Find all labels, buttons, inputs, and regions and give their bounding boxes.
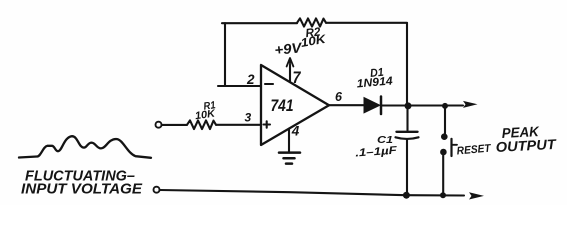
svg-text:741: 741 [271,97,294,115]
svg-text:2: 2 [246,72,255,87]
svg-text:.1–1µF: .1–1µF [355,145,398,160]
svg-text:1N914: 1N914 [356,75,394,90]
svg-text:10K: 10K [300,32,329,50]
svg-text:3: 3 [245,111,252,125]
svg-text:4: 4 [291,124,300,139]
svg-text:OUTPUT: OUTPUT [495,136,557,155]
svg-text:INPUT VOLTAGE: INPUT VOLTAGE [21,182,143,198]
svg-text:+9V: +9V [274,39,304,58]
svg-text:7: 7 [293,68,302,87]
svg-text:RESET: RESET [456,142,492,157]
svg-text:6: 6 [335,90,343,104]
